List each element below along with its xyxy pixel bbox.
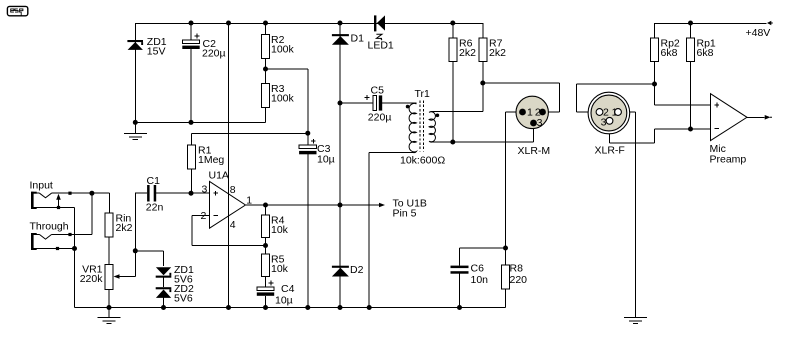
wire: R5 bottom lead to C4 [265, 277, 267, 288]
wire: input jack tip line [37, 193, 110, 213]
wire: VR1 wiper riser [134, 193, 136, 277]
transformer Tr1 primary winding [409, 103, 416, 153]
svg-text:100k: 100k [271, 93, 295, 105]
resistor R6 2k2 [449, 38, 457, 62]
svg-text:XLR-F: XLR-F [595, 145, 625, 157]
resistor R5 10k [262, 254, 270, 277]
svg-text:Input: Input [30, 180, 53, 192]
svg-text:10k: 10k [271, 263, 289, 275]
wire: C5 left lead from D1 line [340, 102, 373, 104]
wire: VR1 bottom lead to ground rail [108, 290, 110, 318]
svg-text:15V: 15V [147, 46, 166, 58]
phase dot: Tr1 secondary [436, 114, 440, 118]
svg-text:6k8: 6k8 [661, 47, 678, 59]
potentiometer VR1 220k [105, 265, 113, 290]
capacitor C3 10u electrolytic [299, 139, 316, 154]
svg-text:220k: 220k [80, 273, 104, 285]
wire: zener clamp branch [135, 251, 163, 287]
transformer Tr1 secondary winding [429, 112, 435, 143]
svg-text:3: 3 [202, 184, 208, 196]
svg-text:2: 2 [201, 210, 207, 222]
wire: R4-R5 link [265, 238, 267, 255]
svg-text:Through: Through [30, 221, 69, 233]
jack: Input (bracket) [31, 192, 37, 209]
phase dot: Tr1 primary [406, 105, 410, 109]
svg-text:10µ: 10µ [275, 295, 293, 307]
capacitor C6 10n [451, 266, 469, 274]
wire: Rp1 top lead [690, 23, 692, 38]
svg-text:U1A: U1A [209, 170, 229, 182]
wire: R1 top lead and bias feed to C3 [191, 133, 307, 145]
wire: R7 junction to XLR-M pin 2 [483, 83, 560, 112]
wire: input jack sleeve line [37, 208, 75, 308]
wire: C6 branch from R8 junction [460, 248, 506, 266]
svg-text:22n: 22n [146, 202, 164, 214]
svg-text:2k2: 2k2 [459, 47, 476, 59]
wire: C1 left lead from VR1 wiper riser [135, 192, 147, 194]
resistor Rin 2k2 [105, 213, 113, 237]
svg-text:10µ: 10µ [317, 154, 335, 166]
svg-text:3: 3 [537, 117, 543, 129]
transformer Tr1 core [420, 101, 424, 152]
op-amp Mic Preamp [711, 94, 748, 141]
svg-text:R8: R8 [510, 263, 524, 275]
svg-text:100k: 100k [271, 44, 295, 56]
wire: through jack sleeve line [37, 248, 75, 250]
wire: R6 bottom lead [452, 62, 454, 143]
svg-text:Tr1: Tr1 [415, 88, 431, 100]
wire: +15V top rail [135, 23, 483, 25]
svg-text:+48V: +48V [746, 27, 771, 39]
svg-text:10k:600Ω: 10k:600Ω [400, 155, 445, 167]
wire: C1 right lead to U1A pin 3 [156, 192, 209, 194]
XLR-F connector [588, 92, 630, 134]
op-amp U1A [210, 181, 246, 228]
wire: +48V top rail [655, 23, 767, 25]
solder pads (jack terminals) [56, 192, 72, 250]
ground (XLR-F shield) [624, 318, 647, 324]
svg-text:C4: C4 [281, 283, 295, 295]
wire: input-to-through link [91, 193, 93, 234]
wire: R7 top lead from rail corner [482, 23, 484, 38]
svg-text:C6: C6 [471, 263, 485, 275]
svg-text:10n: 10n [471, 274, 489, 286]
resistor R3 100k [262, 84, 270, 108]
svg-text:4: 4 [230, 219, 236, 231]
arrow: to U1B pin 5 [379, 203, 385, 207]
capacitor C2 220u electrolytic [182, 34, 199, 49]
wire: R4 top lead [265, 205, 267, 215]
wire: Tr1 primary bottom return to bottom rail [369, 153, 413, 308]
wire: C6 bottom lead [459, 274, 461, 308]
wire: D1/D2 vertical line [339, 23, 341, 308]
wire: XLR-M pin 1 to C6/R8 [506, 112, 523, 248]
svg-text:5V6: 5V6 [174, 293, 193, 305]
svg-text:1: 1 [527, 107, 533, 119]
diode D1 [332, 34, 349, 45]
zener ZD1 15V [127, 40, 143, 50]
wire: R2-R3 link [265, 59, 267, 84]
wire: U1A output line [246, 204, 379, 206]
ground (main, below VR1) [98, 318, 121, 324]
capacitor C5 220u electrolytic [365, 95, 382, 110]
wire: R7 bottom lead [482, 62, 484, 112]
wire: C5 right lead to Tr1 primary [382, 102, 416, 104]
jack: Through (bracket) [31, 233, 37, 250]
wire: XLR-F pin 1 to ground [618, 112, 636, 317]
svg-text:2k2: 2k2 [116, 222, 133, 234]
wire: main bottom rail [75, 307, 506, 309]
resistor R2 100k [262, 35, 270, 59]
resistor R1 1Meg [187, 145, 195, 169]
wire: lower-left rail [135, 122, 265, 124]
svg-text:D2: D2 [350, 264, 364, 276]
svg-text:XLR-M: XLR-M [518, 145, 551, 157]
capacitor C4 10u electrolytic [257, 281, 274, 296]
arrowhead: mic preamp output [765, 115, 772, 120]
XLR-M connector [516, 96, 548, 128]
zener ZD1 5V6 [156, 267, 172, 277]
wire: Rp2 bottom lead to preamp + input [655, 62, 711, 106]
wire: through tip chevron [40, 235, 52, 240]
LED LED1 [374, 15, 385, 40]
wire: C2 top lead [190, 23, 192, 40]
wire: R8 bottom lead [505, 289, 507, 308]
capacitor C1 22n [147, 185, 156, 202]
svg-text:1Meg: 1Meg [198, 154, 224, 166]
svg-text:C5: C5 [371, 85, 385, 97]
ground (below ZD1 15V) [124, 134, 147, 140]
wire: Rp2 top lead [654, 23, 656, 38]
wire: C4 bottom lead [265, 296, 267, 308]
resistor Rp1 6k8 [687, 38, 695, 62]
arrow: +48V supply input [767, 21, 773, 26]
svg-text:3: 3 [601, 116, 607, 128]
zener ZD2 5V6 [156, 287, 172, 298]
ESP logo [7, 6, 27, 16]
resistor R4 10k [262, 215, 270, 238]
wire: R2/R3 junction to C3 [266, 69, 308, 145]
svg-text:D1: D1 [351, 33, 365, 45]
wire: R2 top lead [265, 23, 267, 35]
wire: R3 bottom lead to lower rail [265, 108, 267, 123]
svg-text:6k8: 6k8 [697, 47, 714, 59]
wire: R6 top lead [452, 23, 454, 38]
wire: R8 top lead [505, 248, 507, 265]
wire: input tip chevron [40, 193, 52, 198]
svg-text:C1: C1 [147, 175, 161, 187]
svg-text:Preamp: Preamp [710, 154, 747, 166]
wire: R1 bottom lead [190, 169, 192, 193]
resistor Rp2 6k8 [651, 38, 659, 62]
svg-text:1: 1 [612, 107, 618, 119]
svg-text:LED1: LED1 [368, 40, 394, 52]
wire: Rp1 bottom lead to preamp - input [690, 62, 692, 130]
wire: zener bottom lead [163, 298, 165, 308]
wire: VR1 wiper arrow line [119, 276, 135, 278]
resistor R7 2k2 [479, 38, 487, 62]
wire: Rin bottom lead to VR1 [108, 237, 110, 265]
svg-text:8: 8 [230, 184, 236, 196]
svg-text:220: 220 [510, 274, 528, 286]
arrowhead: input jack switch [56, 194, 61, 200]
wire: mic preamp output [747, 116, 765, 118]
resistor R8 220 [502, 265, 510, 289]
wire: ZD1 branch (rail to ground) [134, 23, 136, 134]
wire: Tr1 secondary top to R7 line [432, 111, 483, 113]
svg-text:220µ: 220µ [202, 48, 226, 60]
diode D2 [332, 266, 349, 277]
wire: C3 bottom lead [307, 154, 309, 307]
wire: XLR-F pin 2 to Rp2 junction [577, 84, 655, 112]
wire: input jack switch arrow [58, 200, 60, 208]
wire: through jack tip line [37, 234, 92, 236]
wire: Tr1 secondary bottom to XLR-M pin 3 [432, 123, 533, 142]
arrowhead: VR1 wiper [114, 274, 120, 279]
wire: U1A supply line pin8/pin4 [228, 23, 230, 308]
svg-text:Pin 5: Pin 5 [393, 208, 417, 220]
wire: U1A feedback pin 2 [192, 216, 266, 246]
wire: C2 bottom lead [190, 49, 192, 123]
svg-text:10k: 10k [271, 224, 289, 236]
wire: preamp - input line to XLR-F pin 3 [610, 124, 711, 143]
svg-text:1: 1 [246, 194, 252, 206]
svg-text:2k2: 2k2 [489, 47, 506, 59]
svg-text:220µ: 220µ [368, 111, 392, 123]
